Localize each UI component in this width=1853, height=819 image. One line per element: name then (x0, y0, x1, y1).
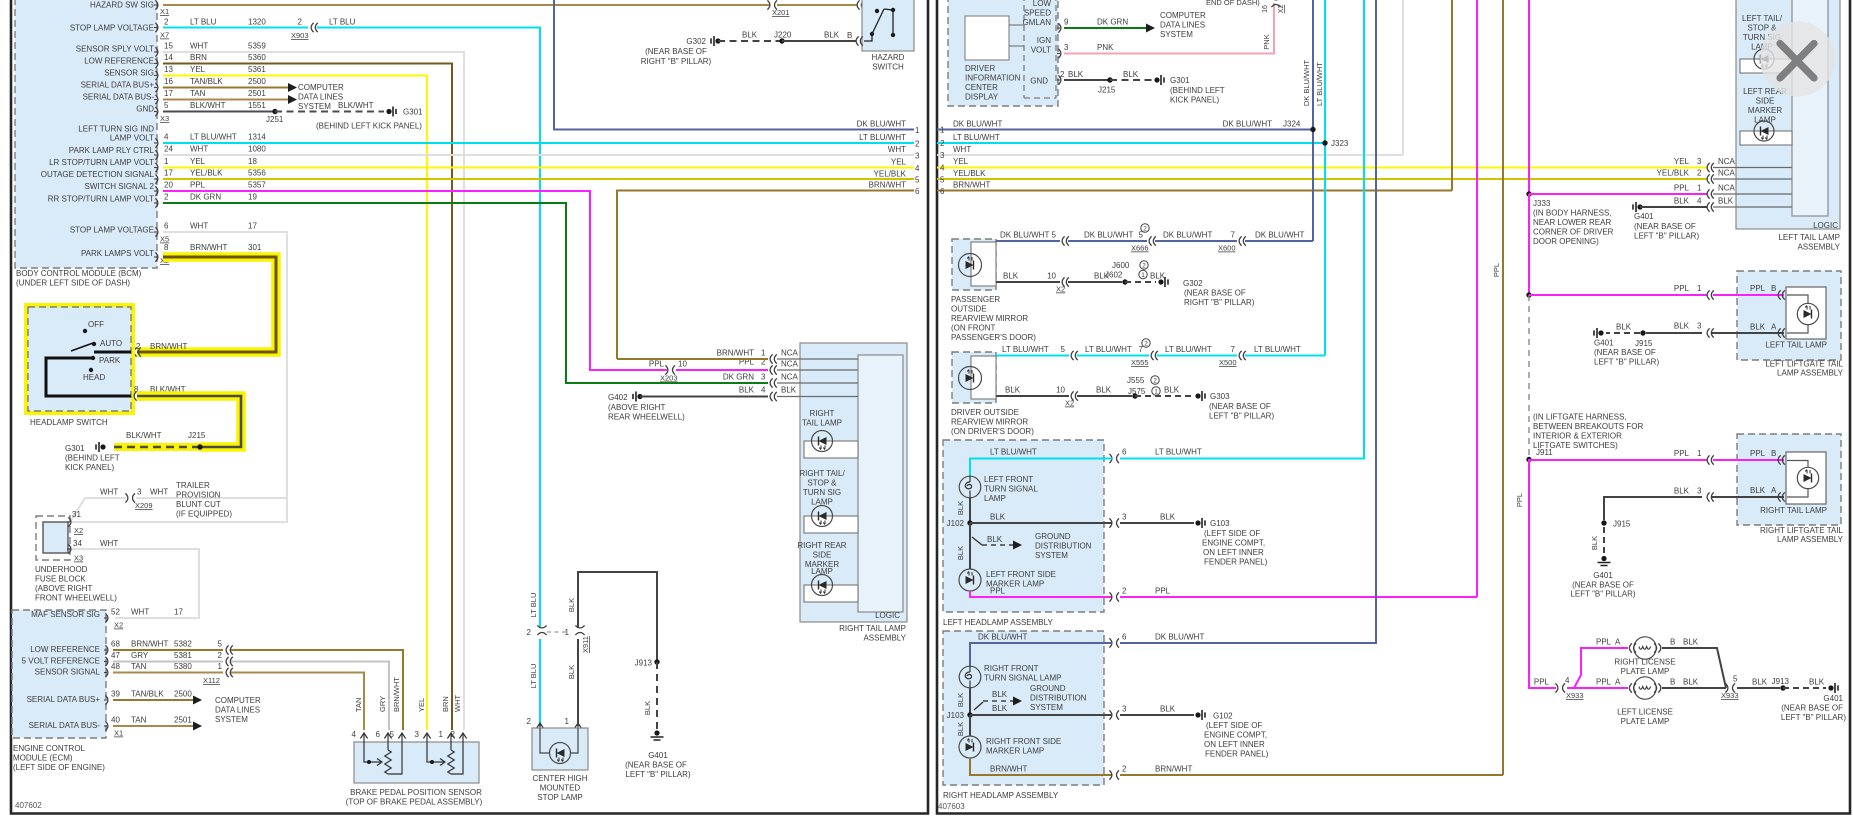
svg-text:X666: X666 (1131, 244, 1149, 253)
svg-text:OFF: OFF (88, 320, 104, 329)
svg-text:TAN/BLK: TAN/BLK (190, 77, 223, 86)
svg-text:DATA LINES: DATA LINES (1160, 21, 1205, 30)
svg-text:DK BLU/WHT: DK BLU/WHT (1000, 231, 1049, 240)
svg-text:1314: 1314 (248, 133, 266, 142)
svg-text:X2: X2 (1056, 285, 1065, 294)
svg-text:1: 1 (565, 628, 570, 637)
svg-text:6: 6 (1122, 448, 1127, 457)
svg-text:RIGHT LICENSE: RIGHT LICENSE (1614, 658, 1675, 667)
left liftgate tail lamp assembly (1737, 271, 1844, 378)
left tail lamp assembly box (1713, 0, 1841, 252)
svg-text:X2: X2 (1278, 5, 1285, 14)
svg-text:2: 2 (1122, 765, 1127, 774)
svg-text:SWITCH SIGNAL 2: SWITCH SIGNAL 2 (85, 182, 155, 191)
svg-text:1: 1 (565, 717, 570, 726)
svg-text:BLK: BLK (956, 693, 965, 707)
svg-text:J333: J333 (1533, 199, 1551, 208)
svg-text:4: 4 (164, 133, 169, 142)
svg-text:WHT: WHT (100, 488, 118, 497)
svg-text:PARK LAMP RLY CTRL: PARK LAMP RLY CTRL (69, 146, 155, 155)
wire row5 YEL/BLK 5356 across both pages (163, 178, 914, 180)
right tail lamp (802, 409, 858, 458)
svg-text:DK BLU/WHT: DK BLU/WHT (953, 120, 1002, 129)
svg-text:(ABOVE RIGHT: (ABOVE RIGHT (608, 403, 665, 412)
svg-text:J251: J251 (266, 115, 284, 124)
right tail lamp internal wires (777, 359, 858, 397)
svg-text:2: 2 (298, 18, 303, 27)
svg-text:ENGINE COMPT,: ENGINE COMPT, (1204, 731, 1267, 740)
svg-text:LEFT TAIL/: LEFT TAIL/ (1742, 14, 1783, 23)
svg-text:(NEAR BASE OF: (NEAR BASE OF (645, 47, 707, 56)
wire PPL J911 to right liftgate tail lamp (1515, 449, 1785, 507)
svg-text:1: 1 (761, 349, 766, 358)
svg-text:(IN LIFTGATE HARNESS,: (IN LIFTGATE HARNESS, (1533, 413, 1627, 422)
svg-text:DISTRIBUTION: DISTRIBUTION (1035, 542, 1092, 551)
svg-text:TURN SIGNAL LAMP: TURN SIGNAL LAMP (984, 674, 1062, 683)
svg-text:(NEAR BASE OF: (NEAR BASE OF (625, 761, 687, 770)
wire SERIAL DATA BUS- TAN 2501 to computer data lines (163, 83, 344, 111)
headlamp switch box highlighted (28, 307, 131, 427)
svg-text:1: 1 (915, 126, 920, 135)
svg-text:4: 4 (940, 164, 945, 173)
svg-text:X201: X201 (772, 8, 790, 17)
svg-text:X911: X911 (581, 636, 590, 653)
svg-text:DK BLU/WHT: DK BLU/WHT (1302, 59, 1311, 106)
svg-text:5357: 5357 (248, 181, 266, 190)
svg-text:5: 5 (1733, 675, 1738, 684)
svg-text:BLK: BLK (1003, 272, 1019, 281)
svg-text:13: 13 (164, 65, 173, 74)
svg-text:MODULE (ECM): MODULE (ECM) (13, 754, 73, 763)
svg-text:COMPUTER: COMPUTER (215, 696, 261, 705)
wire BLK hazard switch to G302 via J220 (641, 31, 863, 67)
svg-text:TAN: TAN (354, 698, 363, 712)
svg-text:BRN/WHT: BRN/WHT (990, 765, 1027, 774)
svg-text:2: 2 (915, 140, 920, 149)
svg-text:MOUNTED: MOUNTED (540, 784, 581, 793)
svg-text:ENGINE CONTROL: ENGINE CONTROL (13, 744, 86, 753)
svg-text:BLK: BLK (1096, 386, 1112, 395)
svg-text:BLK: BLK (1683, 678, 1699, 687)
svg-text:BLK: BLK (992, 704, 1008, 713)
wire LT BLU/WHT to left front turn signal lamp (970, 0, 1364, 476)
svg-text:YEL/BLK: YEL/BLK (953, 169, 986, 178)
svg-text:PPL: PPL (1155, 587, 1171, 596)
svg-text:INFORMATION: INFORMATION (965, 74, 1021, 83)
svg-text:BRN: BRN (441, 696, 450, 712)
svg-text:SYSTEM: SYSTEM (215, 715, 248, 724)
svg-text:4: 4 (352, 730, 357, 739)
svg-text:9: 9 (1064, 18, 1069, 27)
svg-text:J555: J555 (1127, 376, 1145, 385)
svg-text:YEL/BLK: YEL/BLK (1657, 169, 1690, 178)
svg-text:DRIVER: DRIVER (965, 64, 995, 73)
svg-text:1: 1 (1697, 184, 1702, 193)
svg-text:X7: X7 (160, 31, 169, 40)
svg-text:BLK: BLK (1674, 487, 1690, 496)
svg-text:BLK: BLK (1809, 678, 1825, 687)
svg-text:LT BLU/WHT: LT BLU/WHT (859, 133, 906, 142)
svg-text:3: 3 (1697, 157, 1702, 166)
svg-text:PPL: PPL (1492, 263, 1501, 277)
svg-text:LOW: LOW (1033, 0, 1052, 8)
svg-text:1: 1 (1154, 388, 1158, 395)
svg-text:BRN/WHT: BRN/WHT (717, 349, 754, 358)
svg-text:VOLT: VOLT (1031, 46, 1051, 55)
wire ECM 5 VOLT REFERENCE GRY 5381 via X112 (113, 651, 389, 730)
svg-text:J915: J915 (1635, 339, 1653, 348)
wire ECM SENSOR SIGNAL TAN 5380 via X112 (113, 662, 364, 730)
svg-text:5: 5 (915, 176, 920, 185)
svg-text:SERIAL DATA BUS-: SERIAL DATA BUS- (83, 93, 155, 102)
svg-text:J602: J602 (1105, 271, 1123, 280)
svg-text:2: 2 (1153, 377, 1157, 384)
svg-text:RIGHT REAR: RIGHT REAR (797, 541, 846, 550)
svg-text:BLK/WHT: BLK/WHT (190, 101, 226, 110)
svg-text:G301: G301 (1170, 76, 1190, 85)
body control module (BCM) box (15, 0, 157, 288)
svg-text:GND: GND (136, 105, 154, 114)
svg-text:UNDERHOOD: UNDERHOOD (35, 565, 88, 574)
svg-text:BRN/WHT: BRN/WHT (131, 640, 168, 649)
svg-text:DK BLU/WHT: DK BLU/WHT (978, 633, 1027, 642)
svg-text:1551: 1551 (248, 101, 266, 110)
svg-text:PNK: PNK (1097, 43, 1114, 52)
svg-text:301: 301 (248, 243, 262, 252)
svg-text:(TOP OF BRAKE PEDAL ASSEMBLY): (TOP OF BRAKE PEDAL ASSEMBLY) (346, 798, 483, 807)
svg-text:GRY: GRY (131, 651, 149, 660)
svg-text:4: 4 (1565, 676, 1570, 685)
driver information center display box (948, 0, 1061, 106)
wire BRN/WHT right headlamp to right vertical (970, 758, 1503, 780)
svg-text:LT BLU/WHT: LT BLU/WHT (990, 448, 1037, 457)
svg-text:ENGINE COMPT,: ENGINE COMPT, (1202, 539, 1265, 548)
svg-text:X112: X112 (203, 676, 220, 685)
svg-text:8: 8 (164, 243, 169, 252)
svg-text:PPL: PPL (1674, 184, 1690, 193)
svg-text:(IN BODY HARNESS,: (IN BODY HARNESS, (1533, 209, 1612, 218)
svg-text:7: 7 (1231, 231, 1236, 240)
svg-text:WHT: WHT (190, 145, 208, 154)
svg-text:YEL: YEL (190, 65, 206, 74)
svg-text:G401: G401 (1823, 694, 1843, 703)
wire PPL left headlamp to right vertical (970, 587, 1477, 602)
svg-text:X555: X555 (1131, 358, 1149, 367)
svg-text:LT BLU/WHT: LT BLU/WHT (1085, 345, 1132, 354)
svg-text:ON LEFT INNER: ON LEFT INNER (1203, 548, 1264, 557)
svg-text:BODY CONTROL MODULE (BCM): BODY CONTROL MODULE (BCM) (16, 269, 142, 278)
svg-text:J215: J215 (1098, 86, 1116, 95)
svg-text:5360: 5360 (248, 53, 266, 62)
svg-text:PPL: PPL (1674, 284, 1690, 293)
row6 BRN/WHT vertical to top (1451, 0, 1453, 191)
svg-text:2: 2 (164, 193, 169, 202)
svg-text:LT BLU: LT BLU (529, 593, 538, 618)
svg-text:OUTAGE DETECTION SIGNAL: OUTAGE DETECTION SIGNAL (41, 170, 155, 179)
wire BLK license lamps to G401 via J913 (1662, 648, 1846, 722)
wire row4 YEL 18 across both pages to left tail lamp (163, 167, 914, 169)
svg-text:PPL: PPL (1750, 284, 1766, 293)
svg-text:4: 4 (761, 386, 766, 395)
svg-text:BLK: BLK (1750, 323, 1766, 332)
svg-text:15: 15 (164, 42, 173, 51)
svg-text:5: 5 (1139, 231, 1144, 240)
svg-text:407602: 407602 (15, 801, 42, 810)
BRN/WHT vertical from top to right headlamp row (1502, 0, 1504, 775)
svg-text:G401: G401 (1634, 212, 1654, 221)
svg-text:RR STOP/TURN LAMP VOLT: RR STOP/TURN LAMP VOLT (48, 195, 154, 204)
svg-text:B: B (847, 31, 852, 40)
svg-text:LT BLU/WHT: LT BLU/WHT (1254, 345, 1301, 354)
trailer provision labels (176, 481, 232, 519)
svg-text:ON LEFT INNER: ON LEFT INNER (1204, 740, 1265, 749)
svg-text:LEFT FRONT: LEFT FRONT (984, 475, 1033, 484)
svg-text:5 VOLT REFERENCE: 5 VOLT REFERENCE (22, 657, 100, 666)
svg-text:14: 14 (164, 53, 173, 62)
svg-text:LEFT LICENSE: LEFT LICENSE (1617, 708, 1673, 717)
svg-text:5: 5 (218, 640, 223, 649)
svg-text:HAZARD: HAZARD (872, 53, 905, 62)
svg-text:LEFT "B" PILLAR): LEFT "B" PILLAR) (625, 770, 690, 779)
svg-text:SERIAL DATA BUS+: SERIAL DATA BUS+ (27, 695, 101, 704)
svg-text:X3: X3 (74, 554, 83, 563)
svg-text:LEFT "B" PILLAR): LEFT "B" PILLAR) (1781, 713, 1846, 722)
svg-text:X903: X903 (291, 31, 309, 40)
svg-text:3: 3 (1122, 705, 1127, 714)
BCM pin brackets and labels (41, 0, 267, 265)
svg-text:BLK: BLK (1160, 705, 1176, 714)
svg-text:2: 2 (940, 139, 945, 148)
svg-text:FRONT WHEELWELL): FRONT WHEELWELL) (35, 594, 117, 603)
svg-text:A: A (1771, 323, 1777, 332)
brake pedal position sensor (346, 677, 483, 807)
svg-text:G301: G301 (65, 444, 85, 453)
svg-text:47: 47 (111, 651, 120, 660)
right front turn signal lamp (959, 664, 1061, 688)
left headlamp assembly box (943, 440, 1104, 627)
svg-text:STOP LAMP VOLTAGE: STOP LAMP VOLTAGE (70, 226, 154, 235)
wire LOW REFERENCE BRN 5360 (163, 64, 452, 731)
svg-text:OUTSIDE: OUTSIDE (951, 305, 987, 314)
svg-text:DK GRN: DK GRN (190, 193, 221, 202)
svg-text:17: 17 (164, 169, 173, 178)
svg-text:1: 1 (439, 730, 444, 739)
wire DK BLU/WHT passenger mirror via X666 X600 to J324 (996, 224, 1313, 253)
wire DK BLU/WHT to right front turn signal lamp (970, 0, 1376, 666)
svg-text:BLK: BLK (992, 690, 1008, 699)
svg-text:BLK: BLK (742, 31, 758, 40)
svg-text:5: 5 (1052, 231, 1057, 240)
svg-text:LT BLU/WHT: LT BLU/WHT (190, 133, 237, 142)
svg-text:PPL: PPL (649, 360, 665, 369)
svg-text:SENSOR SIGNAL: SENSOR SIGNAL (35, 668, 101, 677)
svg-text:J103: J103 (947, 711, 965, 720)
passenger outside rearview mirror (951, 239, 1036, 342)
svg-text:DK BLU/WHT: DK BLU/WHT (1084, 231, 1133, 240)
svg-text:6: 6 (1122, 633, 1127, 642)
wire SENSOR SIG YEL 5361 (163, 76, 427, 731)
svg-text:7: 7 (1139, 345, 1144, 354)
svg-text:MARKER LAMP: MARKER LAMP (986, 747, 1044, 756)
right page row labels 1-6 (940, 120, 1002, 197)
svg-text:BLK: BLK (1674, 322, 1690, 331)
svg-text:LAMP: LAMP (984, 494, 1006, 503)
svg-text:3: 3 (137, 488, 142, 497)
svg-text:RIGHT "B" PILLAR): RIGHT "B" PILLAR) (1184, 298, 1255, 307)
svg-text:2: 2 (1122, 587, 1127, 596)
wire SENSOR SPLY VOLT WHT 5359 (163, 52, 464, 730)
svg-text:16: 16 (1262, 5, 1269, 13)
right tail/stop and turn sig lamp (799, 469, 858, 533)
svg-text:J324: J324 (1283, 120, 1301, 129)
svg-text:J915: J915 (1613, 520, 1631, 529)
svg-text:LEFT HEADLAMP ASSEMBLY: LEFT HEADLAMP ASSEMBLY (943, 618, 1053, 627)
svg-text:PLATE LAMP: PLATE LAMP (1621, 717, 1670, 726)
svg-text:PPL: PPL (1534, 678, 1550, 687)
svg-text:(ON FRONT: (ON FRONT (951, 324, 996, 333)
right front side marker lamp (956, 715, 1061, 758)
wire row1 DK BLU/WHT from top to J324 (554, 0, 914, 130)
svg-text:WHT: WHT (888, 145, 906, 154)
left front side marker lamp (956, 523, 1056, 591)
svg-text:5: 5 (940, 176, 945, 185)
svg-text:YEL/BLK: YEL/BLK (190, 169, 223, 178)
svg-text:(ABOVE RIGHT: (ABOVE RIGHT (35, 584, 92, 593)
svg-text:WHT: WHT (150, 488, 168, 497)
svg-text:WHT: WHT (453, 695, 462, 712)
svg-text:STOP &: STOP & (807, 479, 837, 488)
svg-text:A: A (1615, 678, 1621, 687)
svg-text:17: 17 (164, 89, 173, 98)
svg-text:BLK: BLK (1150, 272, 1166, 281)
svg-text:BLK: BLK (824, 31, 840, 40)
svg-text:REAR WHEELWELL): REAR WHEELWELL) (608, 413, 685, 422)
wire STOP LAMP VOLTAGE LT BLU 1320 with X903 to center stop lamp (163, 18, 540, 727)
svg-text:5: 5 (1061, 345, 1066, 354)
svg-text:G402: G402 (608, 393, 628, 402)
svg-text:YEL: YEL (417, 698, 426, 712)
svg-text:2: 2 (451, 730, 456, 739)
close button (1760, 22, 1835, 97)
svg-text:3: 3 (915, 152, 920, 161)
svg-text:SPEED: SPEED (1024, 9, 1051, 18)
driver outside rearview mirror (951, 352, 1034, 436)
svg-text:BLK: BLK (990, 513, 1006, 522)
svg-text:40: 40 (111, 716, 120, 725)
wire SWITCH SIGNAL 2 PPL 5357 to X203 and right tail lamp (163, 191, 799, 383)
svg-text:(NEAR BASE OF: (NEAR BASE OF (1572, 581, 1634, 590)
wire GND BLK/WHT 1551 to G301 via J251 (163, 101, 423, 131)
svg-text:G303: G303 (1210, 392, 1230, 401)
hazard switch (862, 0, 914, 72)
right headlamp assembly box (943, 631, 1104, 800)
svg-text:5: 5 (164, 101, 169, 110)
wire RR STOP/TURN DK GRN 19 to right tail lamp (163, 203, 799, 388)
svg-text:B: B (1670, 638, 1675, 647)
svg-text:BLK: BLK (956, 501, 965, 515)
svg-text:LEFT FRONT SIDE: LEFT FRONT SIDE (986, 570, 1056, 579)
svg-text:BLK: BLK (1616, 323, 1632, 332)
svg-text:ASSEMBLY: ASSEMBLY (1797, 243, 1840, 252)
right rear side marker lamp (797, 541, 858, 602)
svg-text:HEADLAMP SWITCH: HEADLAMP SWITCH (30, 418, 108, 427)
svg-text:SERIAL DATA BUS-: SERIAL DATA BUS- (29, 721, 101, 730)
wire row3 WHT 1080 across to right page (163, 154, 914, 156)
svg-text:X2: X2 (74, 526, 83, 535)
svg-text:(NEAR BASE OF: (NEAR BASE OF (1781, 704, 1843, 713)
dashed link J333 to J911 (1529, 295, 1643, 457)
wire row6 BRN/WHT to right tail lamp and across pages (617, 191, 1452, 364)
svg-text:2: 2 (1697, 169, 1702, 178)
svg-text:G401: G401 (1594, 339, 1614, 348)
svg-text:SIDE: SIDE (1756, 97, 1775, 106)
svg-text:7: 7 (1231, 345, 1236, 354)
svg-text:52: 52 (111, 608, 120, 617)
svg-text:5359: 5359 (248, 42, 266, 51)
svg-text:BLK/WHT: BLK/WHT (338, 101, 374, 110)
svg-text:RIGHT HEADLAMP ASSEMBLY: RIGHT HEADLAMP ASSEMBLY (943, 791, 1059, 800)
svg-text:GROUND: GROUND (1030, 684, 1066, 693)
svg-text:SYSTEM: SYSTEM (1160, 30, 1193, 39)
svg-text:YEL: YEL (953, 157, 969, 166)
svg-text:BLK/WHT: BLK/WHT (126, 431, 162, 440)
wire row2 LT BLU/WHT 1314 across both pages to J323 (163, 142, 914, 144)
svg-text:6: 6 (940, 187, 945, 196)
wire BLK right liftgate lamp to G401 via J915 (1570, 486, 1784, 599)
svg-text:X1: X1 (114, 729, 123, 738)
svg-text:MARKER: MARKER (1748, 106, 1782, 115)
svg-text:BLK: BLK (956, 722, 965, 736)
left tail lamp rows 3/2 connector labels (1657, 157, 1736, 184)
wire BLK G401 to left tail lamp pin 4 (1633, 197, 1734, 241)
svg-text:KICK PANEL): KICK PANEL) (65, 463, 115, 472)
svg-text:PPL: PPL (1596, 678, 1612, 687)
svg-text:TURN SIGNAL: TURN SIGNAL (984, 485, 1038, 494)
svg-text:48: 48 (111, 662, 120, 671)
svg-text:BLK: BLK (1123, 70, 1139, 79)
svg-text:6: 6 (376, 730, 381, 739)
svg-text:NCA: NCA (781, 349, 799, 358)
left front turn signal lamp (959, 475, 1038, 503)
svg-text:TRAILER: TRAILER (176, 481, 210, 490)
svg-text:LT BLU: LT BLU (190, 18, 217, 27)
svg-text:1: 1 (164, 157, 169, 166)
svg-text:DK GRN: DK GRN (1097, 18, 1128, 27)
svg-text:DK BLU/WHT: DK BLU/WHT (1155, 633, 1204, 642)
svg-text:10: 10 (678, 360, 687, 369)
svg-text:(LEFT SIDE OF ENGINE): (LEFT SIDE OF ENGINE) (13, 763, 105, 772)
svg-text:PARK: PARK (99, 356, 121, 365)
svg-text:J911: J911 (1536, 448, 1553, 457)
svg-text:CORNER OF DRIVER: CORNER OF DRIVER (1533, 228, 1614, 237)
svg-text:END OF DASH): END OF DASH) (1206, 0, 1260, 7)
svg-text:WHT: WHT (190, 222, 208, 231)
svg-text:HEAD: HEAD (83, 373, 105, 382)
dashed BLK to ground distribution system (left headlamp) (972, 532, 1092, 560)
svg-text:SENSOR SIG: SENSOR SIG (104, 69, 154, 78)
svg-text:1: 1 (940, 126, 945, 135)
svg-text:FENDER PANEL): FENDER PANEL) (1205, 750, 1269, 759)
svg-text:GROUND: GROUND (1035, 532, 1071, 541)
wire BLK stop lamp to J913 and G401 (578, 572, 691, 779)
row2 J323 junction and vertical LT BLU/WHT (1315, 0, 1349, 356)
svg-text:YEL/BLK: YEL/BLK (874, 170, 907, 179)
svg-text:LT BLU/WHT: LT BLU/WHT (1165, 345, 1212, 354)
svg-text:FENDER PANEL): FENDER PANEL) (1204, 558, 1268, 567)
svg-text:3: 3 (1697, 322, 1702, 331)
svg-text:PLATE LAMP: PLATE LAMP (1621, 667, 1670, 676)
svg-text:BLK: BLK (643, 701, 652, 715)
